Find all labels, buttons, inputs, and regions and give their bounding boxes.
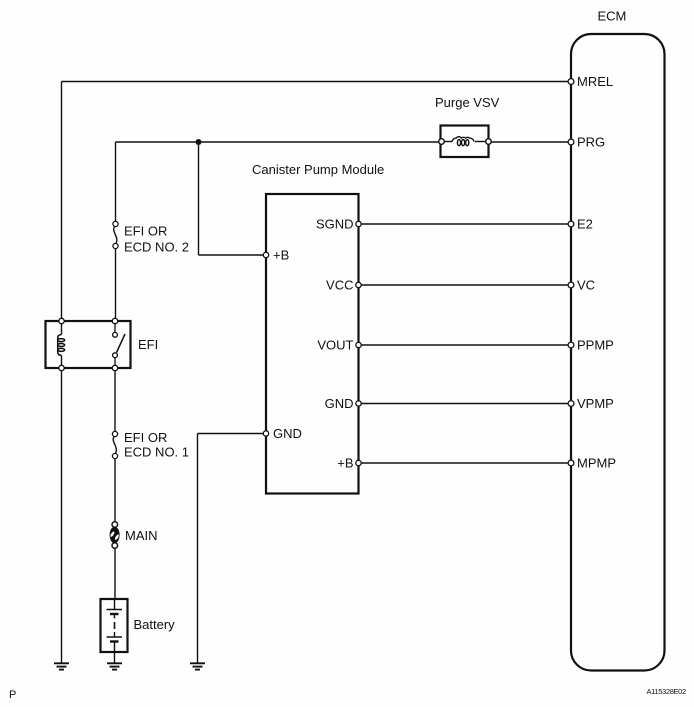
svg-text:GND: GND <box>325 396 354 411</box>
pin PRG <box>568 139 574 145</box>
svg-text:ECD NO. 1: ECD NO. 1 <box>124 445 189 460</box>
pin VOUT <box>356 342 361 347</box>
wire relay to battery column <box>114 368 116 601</box>
wire PPMP <box>359 344 572 346</box>
svg-text:EFI OR: EFI OR <box>124 224 167 239</box>
wire MPMP <box>359 462 572 464</box>
fuse EFI OR ECD NO. 1 <box>110 431 121 458</box>
pin MPMP <box>568 460 574 466</box>
svg-text:Canister Pump Module: Canister Pump Module <box>252 162 384 177</box>
svg-text:VCC: VCC <box>326 278 353 293</box>
svg-text:EFI: EFI <box>138 337 158 352</box>
ground (left) <box>54 663 69 669</box>
pin VCC <box>356 282 361 287</box>
relay corner pins <box>59 318 64 323</box>
svg-text:MAIN: MAIN <box>125 528 158 543</box>
svg-text:Battery: Battery <box>134 617 176 632</box>
pin VPMP <box>568 401 574 407</box>
coil EFI relay winding <box>61 321 63 335</box>
svg-text:MREL: MREL <box>577 74 613 89</box>
fuse EFI OR ECD NO. 2 <box>110 221 121 248</box>
svg-text:+B: +B <box>273 248 289 263</box>
svg-text:A115328E02: A115328E02 <box>647 687 686 696</box>
wire PRG horizontal <box>116 141 572 143</box>
wire battery to ground <box>114 650 116 663</box>
wire VC <box>359 284 572 286</box>
svg-text:GND: GND <box>273 426 302 441</box>
pin VC <box>568 282 574 288</box>
pin E2 <box>568 221 574 227</box>
solenoid Purge VSV <box>439 126 492 158</box>
svg-text:ECD NO. 2: ECD NO. 2 <box>124 240 189 255</box>
node junction PRG/+B <box>196 139 202 145</box>
coil Purge VSV winding <box>452 137 474 142</box>
svg-text:+B: +B <box>337 456 353 471</box>
wire GND horizontal <box>198 433 267 435</box>
pin +B (module left) <box>263 252 268 257</box>
pin +B (module right) <box>356 460 361 465</box>
relay EFI <box>46 318 131 370</box>
ground (battery) <box>107 663 122 669</box>
pin SGND <box>356 221 361 226</box>
fusible link MAIN <box>108 522 121 549</box>
battery <box>101 599 128 652</box>
svg-text:VPMP: VPMP <box>577 396 614 411</box>
wire MREL horizontal <box>62 81 572 83</box>
wire PRG vertical (to relay) <box>115 142 117 321</box>
wire GND vertical to ground <box>197 434 199 664</box>
svg-text:SGND: SGND <box>316 217 354 232</box>
svg-text:EFI OR: EFI OR <box>124 430 167 445</box>
Canister Pump Module box <box>266 194 359 494</box>
svg-text:PRG: PRG <box>577 135 605 150</box>
wire left vertical (MREL to ground) <box>61 82 63 664</box>
svg-text:ECM: ECM <box>598 9 627 24</box>
ECM body <box>571 34 665 671</box>
svg-text:E2: E2 <box>577 217 593 232</box>
switch EFI relay contact <box>114 321 116 333</box>
wire +B branch vertical <box>198 142 200 255</box>
wire VPMP <box>359 403 572 405</box>
wire E2 <box>359 223 572 225</box>
svg-text:PPMP: PPMP <box>577 338 614 353</box>
pin GND (module right) <box>356 401 361 406</box>
ground (module GND) <box>190 663 205 669</box>
svg-text:Purge VSV: Purge VSV <box>435 95 500 110</box>
svg-text:P: P <box>9 689 16 701</box>
wire +B branch horizontal <box>199 254 267 256</box>
svg-text:MPMP: MPMP <box>577 456 616 471</box>
pin GND (module left) <box>263 431 268 436</box>
pin PPMP <box>568 342 574 348</box>
svg-text:VOUT: VOUT <box>317 338 353 353</box>
pin MREL <box>568 79 574 85</box>
svg-text:VC: VC <box>577 278 595 293</box>
